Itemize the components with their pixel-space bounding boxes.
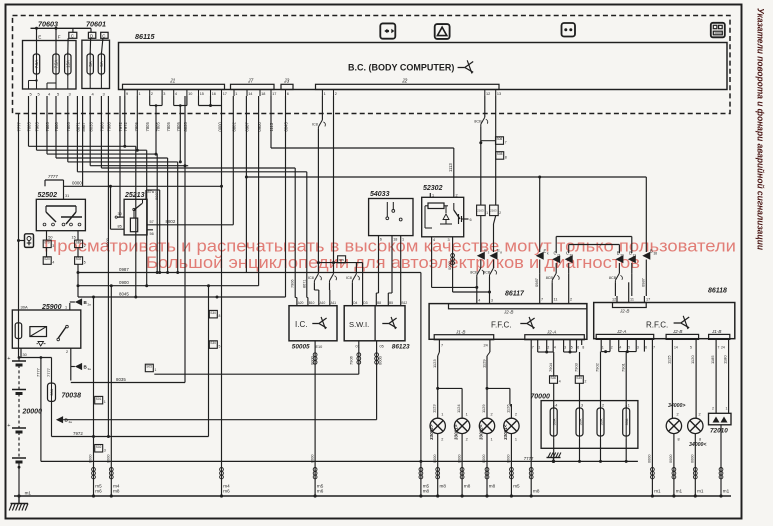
connector J3 pin 6	[286, 90, 289, 97]
wire labels row	[17, 122, 289, 132]
body computer 86115	[119, 32, 728, 90]
svg-text:6: 6	[287, 92, 289, 96]
svg-text:3: 3	[163, 92, 165, 96]
fuse F1 7.5A	[33, 28, 41, 76]
wire B5 feed	[388, 241, 392, 298]
svg-text:70601: 70601	[86, 20, 106, 29]
svg-text:2: 2	[585, 380, 587, 384]
wire 7777 left trunk	[17, 114, 20, 358]
svg-text:6: 6	[470, 218, 472, 222]
connector S200	[43, 248, 54, 265]
main ground bus	[14, 495, 731, 497]
svg-text:7.5A: 7.5A	[34, 59, 39, 68]
svg-text:17: 17	[272, 92, 276, 96]
wire 7805 a	[29, 96, 136, 146]
svg-text:57: 57	[150, 220, 154, 224]
relay pin 56	[147, 230, 154, 236]
wire 7800	[56, 96, 168, 158]
svg-text:7906: 7906	[348, 355, 353, 365]
svg-text:8033: 8033	[88, 122, 93, 132]
svg-text:3: 3	[448, 238, 450, 242]
svg-text:5: 5	[628, 346, 630, 350]
svg-text:1: 1	[402, 238, 404, 242]
svg-text:33001>: 33001>	[454, 424, 459, 440]
svg-text:1: 1	[155, 368, 157, 372]
fuse F4 5A	[87, 28, 96, 76]
svg-text:J2-B: J2-B	[619, 309, 629, 314]
IC ground wire	[309, 341, 323, 498]
svg-text:7: 7	[718, 346, 720, 350]
svg-text:S05: S05	[146, 365, 152, 369]
svg-text:3a: 3a	[88, 367, 92, 371]
svg-text:SB1: SB1	[76, 241, 82, 245]
svg-text:8987: 8987	[81, 122, 86, 132]
svg-text:J1-B: J1-B	[711, 329, 721, 334]
svg-text:0987: 0987	[534, 277, 539, 287]
svg-text:30A: 30A	[553, 418, 557, 425]
svg-text:8CB: 8CB	[483, 271, 491, 275]
wire 8987	[82, 96, 84, 186]
svg-text:6: 6	[645, 346, 647, 350]
svg-text:2: 2	[547, 346, 549, 350]
wire 7805 f	[156, 154, 158, 272]
svg-text:2163: 2163	[490, 209, 497, 213]
svg-text:15A: 15A	[65, 60, 70, 68]
svg-text:B5: B5	[389, 301, 393, 305]
fusebox 70601	[82, 20, 110, 89]
svg-text:J2-A: J2-A	[546, 330, 556, 335]
svg-text:16: 16	[212, 92, 216, 96]
svg-text:1: 1	[139, 92, 141, 96]
lamp 33002<	[479, 404, 496, 498]
wire 7901 pair	[619, 345, 637, 409]
chassis ground symbol	[9, 496, 28, 511]
svg-text:4a: 4a	[69, 420, 73, 424]
svg-text:1: 1	[235, 92, 237, 96]
wire 0987 vertical	[245, 96, 248, 273]
svg-text:25213: 25213	[124, 192, 145, 199]
icon turn-signals	[380, 23, 395, 38]
J1 pin 9 drop	[123, 96, 126, 148]
intermittence unit 52302	[422, 185, 464, 237]
connector J7	[231, 79, 275, 90]
svg-text:30: 30	[620, 254, 624, 258]
svg-text:7908: 7908	[107, 122, 112, 132]
connector J1 pins	[125, 90, 227, 97]
icon hazard small	[19, 234, 34, 248]
wire B10 feed	[302, 172, 308, 298]
svg-text:7800: 7800	[54, 122, 59, 132]
diode rail jumper outer	[556, 237, 632, 254]
svg-text:2: 2	[84, 244, 86, 248]
svg-text:2: 2	[456, 194, 458, 198]
svg-text:3: 3	[581, 404, 583, 408]
wire 1180	[723, 345, 729, 413]
svg-text:2163: 2163	[477, 209, 484, 213]
svg-text:8671: 8671	[302, 280, 306, 288]
52502 pin 15	[72, 231, 79, 240]
connector J1	[123, 79, 225, 90]
wire 0900 vertical	[258, 96, 260, 286]
svg-text:0900: 0900	[119, 280, 129, 285]
wire 1185	[710, 345, 716, 413]
svg-text:7805: 7805	[134, 122, 139, 132]
svg-text:4: 4	[555, 404, 557, 408]
svg-text:4: 4	[52, 261, 54, 265]
svg-text:A10: A10	[320, 301, 326, 305]
RFC top pins	[612, 282, 650, 302]
svg-text:3: 3	[104, 448, 106, 452]
svg-text:2a: 2a	[88, 303, 92, 307]
svg-text:8802: 8802	[232, 122, 237, 132]
svg-text:5: 5	[219, 345, 221, 349]
svg-text:9: 9	[126, 92, 128, 96]
RFC J1-B bar	[709, 329, 730, 350]
svg-text:m1: m1	[654, 489, 661, 494]
J1 pins 4-10 bridge	[174, 96, 187, 163]
svg-text:3: 3	[637, 346, 639, 350]
wire 0987 drop to ground	[419, 273, 430, 498]
svg-text:8CB: 8CB	[474, 120, 482, 124]
svg-text:1185: 1185	[710, 355, 715, 364]
svg-text:3: 3	[564, 346, 566, 350]
svg-text:70000: 70000	[530, 394, 550, 401]
svg-text:1123: 1123	[432, 359, 437, 368]
side marker unit 72010	[709, 407, 732, 435]
svg-text:D3: D3	[363, 301, 367, 305]
svg-text:7777: 7777	[35, 367, 40, 377]
connector S01	[95, 396, 106, 404]
fusebox internal jumpers	[29, 74, 102, 89]
connector J2 pins	[322, 90, 501, 97]
svg-text:5: 5	[571, 346, 573, 350]
svg-text:7805: 7805	[145, 122, 150, 132]
wire lamp2 branch 1124	[438, 388, 462, 404]
wire to ground m5 m6	[92, 297, 103, 498]
svg-text:86123: 86123	[392, 344, 410, 351]
svg-text:72010: 72010	[710, 428, 728, 435]
svg-text:05: 05	[380, 345, 384, 349]
svg-text:0000: 0000	[648, 455, 652, 463]
wire 8871	[77, 96, 306, 172]
svg-text:7805: 7805	[27, 122, 32, 132]
wire 7902 pair	[595, 345, 610, 409]
svg-text:4: 4	[554, 346, 556, 350]
svg-text:2: 2	[335, 92, 337, 96]
svg-text:7903: 7903	[574, 362, 579, 372]
svg-text:86115: 86115	[135, 32, 155, 41]
svg-text:S08: S08	[497, 152, 503, 156]
resistor 30A #3	[597, 404, 604, 462]
wire 7972	[52, 401, 209, 438]
SWI top pins	[352, 298, 407, 306]
svg-text:56: 56	[150, 232, 154, 236]
svg-text:1120: 1120	[690, 355, 695, 364]
svg-text:20000: 20000	[22, 409, 43, 416]
diode rail jumper inner	[569, 245, 620, 254]
switch 54033	[369, 191, 413, 236]
diode C-21	[552, 251, 561, 274]
svg-text:21: 21	[633, 254, 637, 258]
FFC top pin labels	[540, 296, 572, 304]
svg-text:70603: 70603	[38, 20, 58, 29]
connector SB1	[75, 240, 86, 248]
svg-text:D4: D4	[353, 301, 357, 305]
svg-text:2: 2	[677, 413, 679, 417]
connector J2	[316, 79, 500, 90]
wire A11 feed with ICB	[330, 261, 337, 297]
54033 pins	[379, 236, 405, 242]
svg-text:7: 7	[653, 346, 655, 350]
svg-text:2: 2	[611, 346, 613, 350]
svg-text:IC8: IC8	[346, 276, 352, 280]
dashed system boundary	[13, 16, 731, 114]
svg-text:C: C	[102, 33, 105, 38]
relay pin 30	[115, 212, 124, 218]
instrument cluster 50005	[289, 306, 337, 351]
52302 pin 1	[430, 193, 434, 198]
svg-text:2: 2	[602, 404, 604, 408]
connector S08 b	[496, 152, 507, 160]
wire 7904 pair	[538, 345, 554, 376]
svg-text:7906: 7906	[100, 122, 105, 132]
wire 8035 long	[184, 96, 186, 383]
connector S02	[95, 445, 106, 453]
svg-text:1: 1	[602, 346, 604, 350]
lamp 33002>	[429, 404, 446, 498]
relay pin 85	[105, 186, 124, 247]
svg-text:1113: 1113	[448, 163, 453, 172]
svg-text:S02: S02	[76, 257, 82, 261]
svg-text:I.C.: I.C.	[295, 320, 307, 329]
wire 8045 vertical	[285, 96, 287, 297]
wire J2-2	[333, 96, 335, 274]
watermark line 1	[44, 238, 736, 256]
body computer title	[348, 60, 473, 73]
svg-text:50005: 50005	[292, 344, 310, 351]
svg-text:0987: 0987	[119, 267, 129, 272]
fuse F2 7.5A	[53, 28, 61, 76]
connector 2163 a	[477, 205, 489, 252]
svg-text:m8: m8	[440, 484, 447, 489]
svg-text:1129: 1129	[481, 359, 486, 368]
svg-text:1: 1	[538, 346, 540, 350]
svg-text:0000: 0000	[433, 455, 437, 463]
wire 7906 horizontal	[154, 373, 358, 375]
svg-text:24: 24	[721, 346, 725, 350]
connector S05	[145, 364, 156, 372]
svg-text:0000: 0000	[482, 455, 486, 463]
lamp 34000 left	[688, 413, 707, 498]
svg-text:1124: 1124	[456, 404, 461, 413]
wire lamp3 1129	[481, 346, 490, 404]
svg-text:8871: 8871	[76, 122, 81, 132]
svg-text:J2-A: J2-A	[616, 329, 626, 334]
svg-text:F.F.C.: F.F.C.	[491, 321, 511, 330]
svg-text:2: 2	[491, 413, 493, 417]
svg-text:15: 15	[200, 92, 204, 96]
svg-text:0000: 0000	[377, 355, 382, 365]
wire 0987 horizontal	[77, 267, 421, 274]
svg-text:7904: 7904	[548, 362, 553, 372]
svg-text:B8: B8	[377, 301, 381, 305]
wire branch to SWI connectors	[318, 256, 362, 274]
svg-text:2: 2	[66, 350, 68, 354]
svg-text:7.5A: 7.5A	[54, 59, 59, 68]
svg-text:IC8: IC8	[308, 276, 314, 280]
svg-text:E10: E10	[316, 345, 323, 349]
svg-text:IC8: IC8	[312, 122, 318, 126]
fusebox pin numbers	[30, 92, 106, 97]
svg-text:31: 31	[65, 194, 69, 198]
svg-text:86117: 86117	[505, 291, 525, 298]
wire long 0987 right	[246, 176, 646, 179]
FFC J2-A bar	[525, 330, 585, 350]
svg-text:S30: S30	[576, 376, 582, 380]
svg-text:7777: 7777	[524, 456, 534, 461]
svg-text:33001<: 33001<	[503, 424, 508, 440]
wire 7805 b	[47, 96, 157, 154]
connector J7 pins	[234, 90, 276, 97]
fuse 70038	[48, 381, 82, 403]
lamp 33001<	[503, 404, 520, 498]
svg-text:30A: 30A	[50, 388, 54, 395]
svg-text:1: 1	[65, 306, 67, 310]
icon control unit	[711, 23, 725, 38]
svg-text:+: +	[7, 356, 10, 362]
svg-text:1: 1	[486, 211, 488, 215]
svg-text:m8: m8	[113, 489, 120, 494]
svg-text:7901: 7901	[620, 362, 625, 372]
wire RFC pin6 stub	[643, 345, 645, 352]
svg-text:38: 38	[654, 252, 658, 256]
svg-text:7777: 7777	[17, 122, 22, 132]
flasher relay 25213	[124, 192, 147, 235]
connector 8CB left	[534, 273, 569, 296]
wire 8033	[90, 96, 188, 167]
svg-text:m1: m1	[723, 489, 730, 494]
svg-text:0000: 0000	[309, 355, 314, 365]
lamp 33001>	[454, 404, 471, 498]
svg-text:8045: 8045	[284, 122, 289, 132]
svg-text:3: 3	[52, 244, 54, 248]
svg-text:7906: 7906	[291, 280, 295, 288]
svg-text:m6: m6	[223, 489, 230, 494]
ignition switch 25900	[12, 303, 81, 348]
icon indicator dots	[562, 23, 576, 37]
connector 8CB right	[609, 273, 632, 296]
fuse bus top	[31, 27, 92, 30]
wire 1120	[690, 345, 696, 418]
svg-text:B12: B12	[402, 301, 408, 305]
svg-text:8CB: 8CB	[470, 271, 478, 275]
25900 pin 30	[21, 348, 27, 357]
svg-text:m8: m8	[489, 484, 496, 489]
svg-text:24: 24	[484, 344, 488, 348]
svg-text:Указатели поворота и фонари ав: Указатели поворота и фонари аварийной си…	[755, 8, 766, 250]
wire RFC pin7 ground	[651, 345, 662, 498]
connector S202	[75, 248, 86, 297]
wire 8035 horizontal	[71, 377, 185, 383]
RFC J2-B bar	[666, 329, 699, 350]
svg-text:0000: 0000	[310, 455, 314, 463]
svg-text:2: 2	[499, 211, 501, 215]
wire 8802	[149, 96, 234, 225]
diode C-30	[565, 251, 574, 274]
svg-text:15: 15	[72, 236, 76, 240]
svg-text:0000: 0000	[669, 455, 673, 463]
wire 7777 rail riser	[40, 356, 43, 461]
52302 pin 6	[464, 218, 472, 222]
svg-text:2: 2	[570, 298, 572, 302]
svg-text:1: 1	[515, 438, 517, 442]
diode B-21	[628, 251, 637, 274]
svg-text:0T0: 0T0	[44, 241, 50, 245]
wire 7906 horizontal upper	[101, 96, 295, 168]
wire 1125	[667, 345, 673, 418]
svg-text:2: 2	[441, 438, 443, 442]
svg-text:5A: 5A	[99, 61, 104, 66]
svg-text:7805: 7805	[45, 122, 50, 132]
svg-text:6: 6	[380, 238, 382, 242]
svg-text:17: 17	[646, 298, 650, 302]
ground stub 0000 labels	[89, 455, 695, 463]
52502 pin 50	[47, 231, 53, 240]
wire FFC J2A pin7 to ground	[529, 345, 540, 498]
diode E-k	[536, 177, 549, 273]
fuse F3 15A	[65, 28, 77, 76]
resistor pack 70000	[530, 394, 637, 449]
svg-text:52302: 52302	[423, 185, 443, 192]
svg-text:10: 10	[188, 92, 192, 96]
svg-text:A20: A20	[298, 301, 304, 305]
wire 7805 e	[146, 150, 148, 286]
svg-text:1126: 1126	[505, 404, 510, 413]
svg-text:1: 1	[432, 194, 434, 198]
svg-text:33002<: 33002<	[479, 424, 484, 440]
svg-text:30: 30	[23, 353, 27, 357]
svg-text:J7: J7	[247, 79, 254, 85]
svg-text:J2-B: J2-B	[503, 310, 513, 315]
svg-text:7972: 7972	[123, 122, 128, 132]
svg-text:18: 18	[261, 92, 265, 96]
svg-text:8035: 8035	[116, 377, 126, 382]
svg-text:7777: 7777	[48, 174, 58, 179]
svg-text:7: 7	[505, 141, 507, 145]
svg-text:7902: 7902	[595, 362, 600, 372]
wire battery to fuse 70038	[18, 356, 52, 383]
wire D3 feed	[362, 268, 364, 298]
svg-text:Большой энциклопедии для автоэ: Большой энциклопедии для автоэлектриков …	[146, 254, 640, 272]
ground m1 battery	[25, 490, 32, 495]
rear fuse centre 86118	[594, 288, 735, 339]
svg-text:4: 4	[559, 380, 561, 384]
fusebox 70603	[23, 20, 77, 90]
svg-text:1129: 1129	[481, 404, 486, 413]
svg-text:0000: 0000	[107, 455, 111, 463]
connector S30 c	[550, 376, 561, 408]
wire B12 feed	[400, 241, 402, 298]
svg-text:A11: A11	[331, 301, 337, 305]
svg-text:S05: S05	[339, 258, 345, 262]
svg-text:11: 11	[630, 298, 634, 302]
connector S30 b	[209, 341, 220, 349]
svg-text:m5: m5	[513, 484, 520, 489]
resistor 30A #2	[576, 404, 583, 462]
svg-text:1123: 1123	[432, 404, 437, 413]
svg-text:J1-B: J1-B	[455, 330, 465, 335]
connector 8CB chain b	[483, 268, 497, 304]
